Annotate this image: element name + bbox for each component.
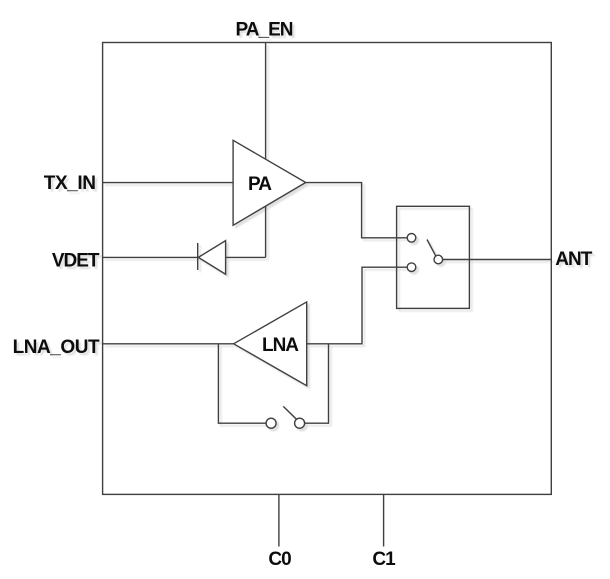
wire LNA bypass left branch (218, 344, 266, 423)
svg-text:PA_EN: PA_EN (236, 19, 293, 40)
pin label PA_EN (236, 19, 293, 40)
wire switch throw 2 to LNA input (307, 267, 408, 344)
wire LNA_OUT (103, 343, 234, 345)
diode D1 (detector diode, anode to PA node) (198, 241, 225, 275)
pin label ANT (555, 249, 592, 270)
pin label TX_IN (44, 173, 96, 194)
switch SW1 throw contact 1 (407, 234, 416, 243)
amplifier PA (233, 140, 306, 225)
wire diode anode to PA node (226, 256, 266, 258)
switch SW2 lever (283, 406, 296, 419)
wire TX_IN (103, 182, 234, 184)
switch SW2 contact 2 (295, 418, 305, 428)
svg-text:LNA_OUT: LNA_OUT (13, 337, 100, 358)
switch SW1 pole contact (434, 255, 443, 264)
svg-text:ANT: ANT (555, 249, 592, 270)
wire PA_EN (vertical from top edge down to diode node, passes behind PA) (265, 43, 267, 258)
wire ANT (443, 259, 552, 261)
pin label C1 (372, 549, 396, 570)
switch SW1 box (antenna switch) (397, 206, 470, 308)
svg-text:PA: PA (248, 174, 272, 195)
switch SW2 contact 1 (LNA bypass) (266, 418, 276, 428)
pin wire C1 (383, 494, 385, 546)
wire LNA bypass right branch (305, 344, 329, 423)
wire VDET (103, 256, 198, 258)
svg-text:LNA: LNA (262, 335, 299, 356)
wire PA output to switch throw 1 (306, 183, 408, 238)
svg-text:TX_IN: TX_IN (44, 173, 96, 194)
pin label LNA_OUT (13, 337, 100, 358)
chip outline (103, 43, 552, 495)
svg-text:VDET: VDET (52, 251, 100, 272)
pin label VDET (52, 251, 100, 272)
pin wire C0 (278, 494, 280, 546)
amplifier LNA (234, 302, 307, 386)
switch SW1 lever (427, 240, 436, 257)
switch SW1 throw contact 2 (407, 263, 416, 272)
pin label C0 (268, 549, 291, 570)
svg-text:C1: C1 (372, 549, 396, 570)
svg-text:C0: C0 (268, 549, 291, 570)
diode D1 cathode bar (197, 243, 199, 270)
